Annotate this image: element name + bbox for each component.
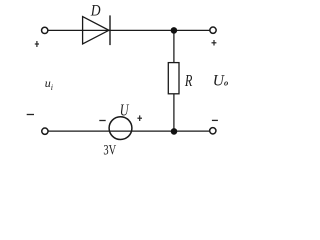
- polarity + top-right: [212, 40, 217, 46]
- wire bottom horizontal (return rail): [45, 130, 213, 132]
- polarity - bottom-right: [212, 119, 218, 121]
- diode D triangle (anode): [83, 17, 109, 44]
- diode D cathode bar: [109, 15, 111, 45]
- polarity + source right: [137, 115, 142, 121]
- svg-text:U: U: [120, 101, 130, 120]
- polarity + top-left: [35, 41, 39, 47]
- wire top horizontal (input + rail): [45, 29, 213, 31]
- junction node bottom (source / resistor / output): [171, 128, 178, 135]
- terminal bottom-right: [210, 128, 216, 134]
- resistor R body: [168, 63, 179, 94]
- svg-text:Uo: Uo: [213, 72, 228, 89]
- wire vertical resistor branch lower: [173, 94, 175, 132]
- svg-text:R: R: [184, 71, 193, 90]
- voltage source U circle: [109, 117, 132, 140]
- svg-text:D: D: [90, 3, 101, 20]
- polarity - bottom-left: [27, 114, 34, 116]
- junction node top (diode cathode / resistor / output): [171, 27, 178, 34]
- wire vertical resistor branch upper: [173, 30, 175, 63]
- polarity - source left: [99, 120, 105, 122]
- svg-text:ui: ui: [45, 76, 53, 92]
- svg-text:3V: 3V: [103, 143, 116, 159]
- terminal bottom-left: [42, 128, 48, 134]
- terminal top-right: [210, 27, 216, 33]
- terminal top-left: [42, 27, 48, 33]
